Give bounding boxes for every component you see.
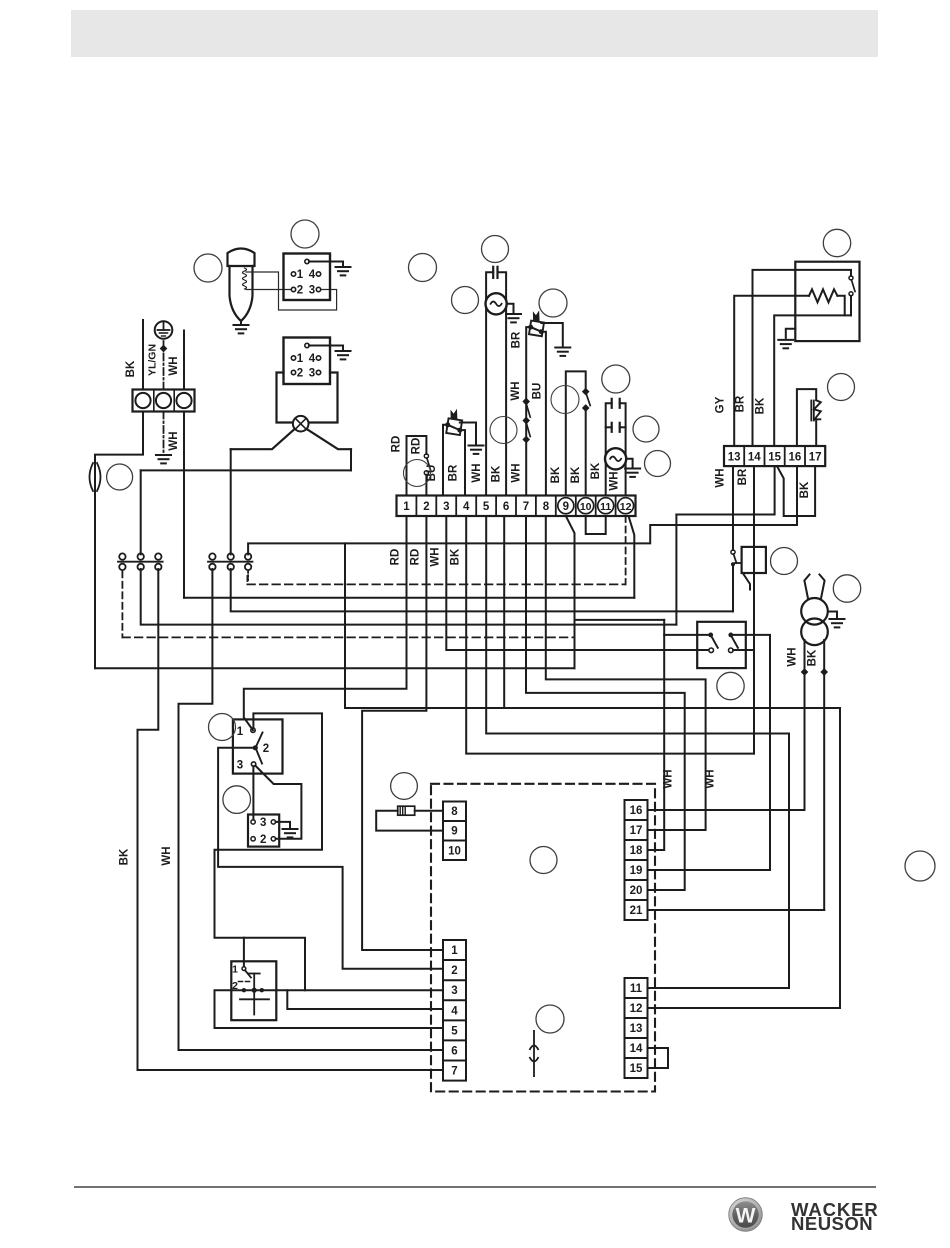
switch S3 left pole bbox=[708, 633, 713, 638]
wire connector X1 WH down bbox=[183, 412, 185, 598]
svg-text:RD: RD bbox=[390, 549, 402, 566]
callout circle inside controller lower bbox=[536, 1005, 564, 1033]
svg-text:BR: BR bbox=[511, 331, 523, 348]
wire relay K1 pin86 to ground bbox=[309, 262, 343, 268]
wire controller pin16 east to horn WH lead bbox=[648, 809, 805, 811]
wire x789 drop to controller pin11 bbox=[648, 734, 790, 989]
callout circle near strip9 switch bbox=[551, 386, 579, 414]
wire lamp H1 bottom bus drop to connector P1 middle bbox=[140, 470, 142, 554]
svg-text:BK: BK bbox=[119, 848, 131, 865]
svg-text:2: 2 bbox=[260, 834, 266, 846]
svg-text:11: 11 bbox=[630, 983, 643, 995]
wire RD loop below switch into strip2 bbox=[425, 475, 427, 496]
callout circle above relay K1 bbox=[291, 220, 319, 248]
wire generator G1 ground stub bbox=[507, 304, 514, 313]
fuse box F2 tail bbox=[743, 574, 750, 590]
svg-text:1: 1 bbox=[403, 501, 410, 513]
fuse F1 line pin8 bbox=[415, 810, 443, 812]
svg-text:9: 9 bbox=[563, 501, 569, 513]
footer rule bbox=[74, 1186, 876, 1188]
wire jumper strip10 strip11 bbox=[586, 516, 606, 534]
strip X2 numbers bbox=[403, 501, 631, 513]
svg-text:7: 7 bbox=[523, 501, 529, 513]
svg-text:4: 4 bbox=[463, 501, 470, 513]
horn M1 bell body bbox=[228, 249, 255, 267]
wire connector X1 BK stub up bbox=[142, 320, 144, 390]
relay K2 pin circles row2 bbox=[291, 370, 295, 374]
wire strip10 below switch bbox=[585, 410, 587, 496]
svg-text:WH: WH bbox=[161, 846, 173, 865]
svg-text:BK: BK bbox=[491, 465, 503, 482]
wire sensor B1 right lead to strip4 bbox=[460, 430, 465, 495]
ground below X1 bbox=[156, 455, 171, 463]
callout circle right of horn H2 bbox=[833, 575, 860, 602]
svg-text:15: 15 bbox=[768, 452, 781, 464]
generator G2 circle bbox=[605, 448, 626, 469]
inline switch on RD wire strip2 bbox=[424, 454, 428, 458]
key switch S2 row contacts bbox=[242, 988, 246, 992]
wire fuel sender R1 resistor right lead bbox=[837, 296, 844, 316]
svg-text:BU: BU bbox=[426, 465, 438, 482]
controller pin numbers right bbox=[630, 805, 643, 1075]
ground generator G2 bbox=[625, 469, 640, 477]
ground relay K2 bbox=[336, 351, 351, 359]
svg-text:RD: RD bbox=[411, 438, 423, 455]
jumper pins 14-15 bbox=[648, 1048, 669, 1068]
svg-text:RD: RD bbox=[410, 549, 422, 566]
wire horn M1 to ground bbox=[240, 321, 242, 325]
svg-text:3: 3 bbox=[260, 817, 266, 829]
wire selector pin3 down to relay K3 pin3 bbox=[252, 766, 254, 820]
wire selector pin1 riser to strip16 loop bbox=[215, 713, 323, 990]
fuse switch F2 contacts bbox=[731, 550, 735, 554]
YL/GN inline diamond bbox=[160, 345, 168, 353]
callout circle above LED V1 bbox=[828, 374, 855, 401]
circled ground symbol above X1 bbox=[155, 321, 173, 339]
float arrow symbol inside controller bbox=[530, 1030, 539, 1077]
callout circle near grommet bbox=[107, 464, 133, 490]
svg-text:12: 12 bbox=[630, 1003, 643, 1015]
svg-text:BU: BU bbox=[532, 383, 544, 400]
connector X1 3pin block bbox=[133, 390, 195, 412]
svg-text:BK: BK bbox=[799, 481, 811, 498]
inline diamond WH horn lead bbox=[801, 668, 809, 676]
wire fuel sender R1 bottom lead BK to strip15 bbox=[774, 315, 851, 446]
controller cells 11-15 bbox=[625, 978, 648, 1078]
svg-text:WH: WH bbox=[663, 769, 675, 788]
wire strip2 c2 down west to x362 controller pin1 bbox=[362, 516, 443, 950]
svg-text:8: 8 bbox=[543, 501, 550, 513]
ground fuel sender bbox=[778, 340, 793, 348]
wire strip1 c1 down west to selector pin1 bbox=[244, 516, 407, 730]
ground horn H2 bbox=[830, 619, 845, 627]
fuel sender R1 box bbox=[795, 262, 859, 341]
relay K1 pin circles row1 bbox=[291, 272, 295, 276]
wire sensor B1 left lead to strip3 bbox=[443, 425, 448, 496]
svg-text:BK: BK bbox=[807, 649, 819, 666]
horn M1 coil bbox=[243, 268, 247, 289]
wire x664 vertical to controller pin18 bbox=[648, 620, 665, 850]
svg-text:2: 2 bbox=[423, 501, 429, 513]
YL/GN dash-dot wire below X1 bbox=[163, 412, 165, 454]
wire strip4 c4 down east to x754 bbox=[466, 516, 754, 754]
svg-text:17: 17 bbox=[630, 825, 643, 837]
relay K1 box bbox=[284, 254, 331, 301]
key switch S2 pin1 contact bbox=[242, 967, 246, 971]
svg-text:2: 2 bbox=[297, 285, 303, 297]
generator G1 circle bbox=[486, 293, 507, 314]
inline connector P1 dashed drop bbox=[121, 571, 123, 637]
wire strip14 down to y753.6 junction bbox=[753, 466, 755, 753]
svg-text:16: 16 bbox=[789, 452, 802, 464]
callout circle below switch S3 bbox=[717, 672, 744, 699]
double switch S3 box bbox=[697, 622, 746, 668]
inline switch on strip10 riser bbox=[582, 388, 590, 396]
svg-text:3: 3 bbox=[237, 760, 243, 772]
wire bus BK y668 east to c9 drop bbox=[95, 667, 575, 669]
svg-text:16: 16 bbox=[630, 805, 643, 817]
wire connector P1 middle pin down to bus y624.6 bbox=[141, 569, 677, 625]
relay K2 box bbox=[284, 338, 331, 385]
wire fuel sender switch riser bbox=[850, 296, 852, 316]
svg-text:RD: RD bbox=[391, 436, 403, 453]
horn H2 twin circles bbox=[801, 598, 828, 625]
svg-text:4: 4 bbox=[309, 269, 316, 281]
inline diamond BK horn lead bbox=[820, 668, 828, 676]
wire fuel sender switch top to BR lead strip14 bbox=[753, 270, 852, 446]
svg-text:BK: BK bbox=[125, 360, 137, 377]
svg-text:12: 12 bbox=[620, 501, 632, 513]
svg-text:BR: BR bbox=[735, 395, 747, 412]
svg-text:4: 4 bbox=[309, 353, 316, 365]
wire x676 vertical strip15 net bbox=[675, 515, 677, 625]
selector S1 blades bbox=[256, 733, 262, 747]
controller cells 16-21 bbox=[625, 800, 648, 920]
sensor B1 thermo switch bbox=[445, 410, 462, 435]
callout circle above fuse F1 bbox=[391, 773, 418, 800]
wire x345 link from y543 to y708 bbox=[345, 543, 840, 708]
wire connector P1 right pin down jog BK to controller pin7 bbox=[138, 569, 444, 1070]
svg-text:BK: BK bbox=[570, 466, 582, 483]
dashed drop strip12 bbox=[625, 516, 627, 584]
svg-text:WH: WH bbox=[168, 356, 180, 375]
selector S1 pin3 bbox=[251, 762, 255, 766]
svg-text:17: 17 bbox=[809, 452, 822, 464]
svg-text:8: 8 bbox=[451, 806, 458, 818]
wire strip16 riser LED loop bbox=[797, 389, 816, 446]
selector switch S1 box bbox=[233, 719, 283, 773]
svg-text:1: 1 bbox=[297, 269, 304, 281]
strip X3 numbers bbox=[728, 452, 822, 464]
callout circle right of fuse box F2 bbox=[771, 548, 798, 575]
key switch S2 mech dashes bbox=[239, 981, 251, 983]
wire RD loop strip1 strip2 bbox=[407, 436, 427, 496]
ground relay K1 bbox=[336, 267, 351, 275]
wire horn H2 BK lead down bbox=[823, 640, 825, 910]
wire selector pin3 diagonal to relay K3 pin2 bbox=[255, 766, 301, 839]
wire strip9 c9 diagonal down bbox=[566, 516, 575, 668]
selector S1 pin1 bbox=[251, 728, 255, 732]
svg-text:WH: WH bbox=[609, 471, 621, 490]
svg-text:2: 2 bbox=[451, 965, 457, 977]
svg-text:9: 9 bbox=[451, 826, 457, 838]
wire switch S3 left pole west bbox=[664, 634, 711, 636]
lamp H1 bulb bbox=[293, 416, 309, 432]
wire thin horn to relay K1 pin2 bbox=[246, 272, 337, 310]
key switch S2 bar bbox=[253, 974, 255, 991]
callout circle above capacitor C2 bbox=[602, 365, 630, 393]
svg-text:13: 13 bbox=[630, 1023, 643, 1035]
fuel sender switch contacts bbox=[849, 292, 853, 296]
wire relay K2 pin86 to ground bbox=[309, 346, 343, 352]
wire sensor B1 ground stub bbox=[460, 423, 476, 444]
svg-text:5: 5 bbox=[451, 1025, 458, 1037]
wire lamp H1 bottom bus y470 bbox=[141, 469, 351, 471]
svg-text:YL/GN: YL/GN bbox=[147, 344, 159, 376]
svg-text:4: 4 bbox=[451, 1005, 458, 1017]
terminal strip X2 1-12 bbox=[397, 496, 636, 517]
controller pin numbers left bbox=[448, 806, 461, 1078]
wire strip5 WH riser to capacitor C1 bbox=[486, 272, 493, 495]
switch S3 right pole bbox=[728, 633, 733, 638]
svg-text:3: 3 bbox=[451, 985, 457, 997]
wire thin horn to relay K1 pin2 lower bbox=[246, 289, 291, 291]
callout circle left of selector S1 bbox=[209, 714, 236, 741]
svg-text:WH: WH bbox=[430, 547, 442, 566]
wire switch S3 right throw east to x754 bbox=[733, 649, 754, 651]
relay K2 pin circles row1 bbox=[291, 356, 295, 360]
wire connector P2 right pin up to y543 bus bbox=[248, 466, 797, 554]
svg-text:19: 19 bbox=[630, 865, 643, 877]
svg-text:18: 18 bbox=[630, 845, 643, 857]
svg-text:BR: BR bbox=[737, 468, 749, 485]
svg-text:6: 6 bbox=[451, 1045, 457, 1057]
svg-text:1: 1 bbox=[451, 945, 458, 957]
header grey bar bbox=[71, 10, 878, 57]
wire fuel sender chassis ground bbox=[786, 329, 796, 338]
lamp H1 diagonal arms bbox=[231, 430, 294, 450]
sensor B2 thermo switch bbox=[528, 312, 544, 336]
svg-text:2: 2 bbox=[297, 368, 303, 380]
svg-text:1: 1 bbox=[297, 353, 304, 365]
relay K3 pin circles bbox=[251, 820, 255, 824]
svg-text:5: 5 bbox=[483, 501, 490, 513]
key switch S2 box bbox=[231, 961, 276, 1020]
svg-text:11: 11 bbox=[600, 501, 611, 513]
wire strip6 c6 down to bus y708 bbox=[503, 516, 505, 708]
capacitor C3 plates bbox=[611, 423, 613, 432]
lamp H1 housing box bbox=[277, 373, 338, 423]
svg-text:BK: BK bbox=[590, 462, 602, 479]
wire switch S3 right pole east to controller pin19 bbox=[648, 635, 771, 870]
callout circle right of relay K1 bbox=[409, 254, 437, 282]
wire strip5 c5 down east to controller pin11 riser bbox=[486, 516, 789, 734]
Wacker Neuson logo ball bbox=[729, 1198, 763, 1232]
callout circle on BK wire strip6 bbox=[490, 417, 517, 444]
svg-text:15: 15 bbox=[630, 1063, 643, 1075]
svg-text:14: 14 bbox=[748, 452, 761, 464]
wire strip15 bus y514.5 bbox=[676, 466, 774, 514]
wire LED V1 down to strip17 bbox=[815, 421, 817, 447]
ground relay K3 bbox=[283, 829, 298, 837]
wire controller pin21 east to horn BK lead bbox=[648, 909, 825, 911]
wire sensor B2 left lead down to strip7 bbox=[526, 327, 531, 495]
wire strip13 down to fuse switch F2 bbox=[732, 466, 734, 550]
wire strip15 diagonal to strip17 link bbox=[777, 466, 815, 516]
wire y619.9 link c9 to controller pin18 riser bbox=[575, 619, 665, 621]
ground sensor B2 bbox=[555, 348, 570, 356]
svg-text:10: 10 bbox=[580, 501, 592, 513]
callout circle above sensor B2 bbox=[539, 289, 567, 317]
svg-text:BK: BK bbox=[450, 548, 462, 565]
svg-text:2: 2 bbox=[263, 743, 269, 755]
wire strip3 c3 down east to switch circle bbox=[446, 516, 707, 650]
svg-text:WH: WH bbox=[511, 463, 523, 482]
wire lamp right arm vertical bbox=[350, 449, 352, 470]
wire strip12 riser to capacitor C2 bbox=[620, 403, 626, 495]
svg-text:WH: WH bbox=[510, 381, 522, 400]
callout circle left of generator G1 bbox=[452, 287, 479, 314]
controller A1 dashed box bbox=[431, 784, 655, 1092]
wire generator G2 ground stub bbox=[626, 459, 633, 468]
selector S1 pin2 pole bbox=[253, 745, 258, 750]
wire key switch S2 pin1 riser bbox=[243, 938, 245, 967]
ground below horn M1 bbox=[234, 325, 249, 333]
controller cells 1-7 bbox=[443, 940, 466, 1081]
svg-text:WH: WH bbox=[787, 647, 799, 666]
wire strip11 riser to capacitor C2 bbox=[606, 403, 612, 495]
svg-text:W: W bbox=[736, 1205, 756, 1228]
wire terminal 12 diagonal drop bbox=[629, 517, 635, 598]
wire horn H2 ground stub bbox=[828, 612, 837, 618]
circled terminals 9-12 bbox=[558, 498, 574, 514]
fuel sender R1 resistor zigzag bbox=[809, 289, 837, 302]
capacitor C2 plates bbox=[611, 399, 613, 408]
dashed bus D2 bbox=[122, 636, 574, 638]
YL/GN dash-dot wire above X1 bbox=[163, 341, 165, 390]
svg-text:NEUSON: NEUSON bbox=[791, 1213, 873, 1234]
svg-text:6: 6 bbox=[503, 501, 509, 513]
svg-text:20: 20 bbox=[630, 885, 643, 897]
grommet arcs on BK wire bbox=[90, 463, 94, 491]
wire lamp left arm vertical to connector P2 middle bbox=[230, 449, 232, 554]
wire connector X1 BK down via grommet to y668 bus bbox=[95, 412, 143, 669]
svg-text:13: 13 bbox=[728, 452, 741, 464]
svg-text:14: 14 bbox=[630, 1043, 643, 1055]
svg-text:3: 3 bbox=[443, 501, 449, 513]
wire relay K3 pin3 ground stub bbox=[276, 822, 290, 827]
svg-text:21: 21 bbox=[630, 905, 643, 917]
controller cells 8-10 bbox=[443, 802, 466, 861]
inline connector P1 bus bar bbox=[118, 561, 163, 563]
wire controller pin4 riser bbox=[287, 990, 443, 1009]
svg-text:WH: WH bbox=[471, 463, 483, 482]
wire WH bus y597.7 east to terminal12 diagonal bbox=[184, 597, 634, 599]
svg-text:1: 1 bbox=[232, 964, 238, 976]
wire capacitor C3 link right bbox=[620, 426, 626, 428]
capacitor C1 plates bbox=[492, 267, 494, 278]
wire fuel sender R1 GY lead to strip13 bbox=[734, 296, 809, 446]
wire sensor B2 ground stub bbox=[541, 323, 563, 346]
svg-text:2: 2 bbox=[232, 980, 238, 992]
wire strip8 c8 down east to x705 controller pin17 bbox=[546, 516, 706, 830]
wire fuse switch F2 down to bus y611.4 bbox=[732, 564, 734, 611]
inline connector P2 pins bbox=[209, 553, 215, 559]
horn H2 bracket bbox=[804, 575, 809, 599]
wire sensor B2 right lead down to strip8 bbox=[541, 332, 546, 496]
callout circle right of capacitor C3 bbox=[633, 416, 659, 442]
relay K3 mini box bbox=[248, 815, 279, 847]
svg-text:BR: BR bbox=[448, 464, 460, 481]
wire connector X1 WH stub up bbox=[183, 331, 185, 390]
relay K2 top pin bbox=[305, 343, 309, 347]
svg-text:WH: WH bbox=[168, 431, 180, 450]
inline connector P2 bus bar bbox=[208, 561, 253, 563]
svg-text:BK: BK bbox=[755, 397, 767, 414]
inline connector P2 right pin dotted stub bbox=[247, 571, 249, 580]
wire connector P2 middle pin down to bus y611.4 bbox=[231, 569, 733, 611]
callout circle near horn M1 bbox=[194, 254, 222, 282]
fuse F1 body bbox=[398, 806, 415, 815]
relay K1 pin circles row2 bbox=[291, 287, 295, 291]
svg-text:7: 7 bbox=[451, 1066, 457, 1078]
svg-text:3: 3 bbox=[309, 285, 315, 297]
callout circle right of generator G2 bbox=[645, 451, 671, 477]
wire strip9 riser inverted U to strip10 bbox=[566, 371, 586, 495]
callout circle above fuel sender R1 bbox=[823, 229, 850, 256]
svg-text:WH: WH bbox=[715, 468, 727, 487]
inline connector P1 pins bbox=[119, 553, 125, 559]
callout circle above capacitor C1 bbox=[482, 236, 509, 263]
wire strip6 BK riser to capacitor C1 bbox=[498, 272, 507, 495]
relay K1 top pin bbox=[305, 259, 309, 263]
svg-text:10: 10 bbox=[448, 845, 461, 857]
svg-text:1: 1 bbox=[237, 726, 244, 738]
terminal strip X3 13-17 bbox=[724, 446, 825, 466]
inline switch chain on WH wire strip7 bbox=[522, 398, 530, 406]
svg-text:BK: BK bbox=[550, 466, 562, 483]
connector X1 pin circles bbox=[135, 393, 150, 408]
wire connector P2 left pin down jog WH to controller pin6 bbox=[179, 569, 444, 1050]
LED V1 bbox=[811, 400, 821, 420]
svg-text:GY: GY bbox=[715, 396, 727, 413]
wire key row west down to controller pin5 bbox=[215, 990, 444, 1028]
ground sensor B1 bbox=[469, 446, 484, 454]
ground generator G1 bbox=[506, 314, 521, 322]
svg-text:3: 3 bbox=[309, 368, 315, 380]
wire horn H2 WH lead down bbox=[804, 640, 806, 810]
dashed bus D1 with stub bbox=[246, 576, 248, 584]
wire selector pin2 west route to controller pin2 bbox=[218, 748, 443, 969]
wire strip7 c7 down east to x684 controller pin20 bbox=[526, 516, 685, 890]
wire capacitor C3 links bbox=[606, 426, 612, 428]
wire x840 drop to controller pin12 bbox=[648, 708, 841, 1008]
fuse switch F2 stub to box bbox=[735, 562, 742, 564]
callout circle inside controller upper bbox=[530, 847, 557, 874]
key switch S2 cross symbol bbox=[253, 990, 255, 1014]
callout circle on RD wire bbox=[404, 460, 431, 487]
svg-text:WH: WH bbox=[705, 769, 717, 788]
wire key row to controller pin3 bbox=[244, 989, 443, 991]
callout circle far right bbox=[905, 851, 935, 881]
callout circle left of relay K3 bbox=[223, 786, 251, 814]
fuse box F2 bbox=[742, 547, 766, 573]
